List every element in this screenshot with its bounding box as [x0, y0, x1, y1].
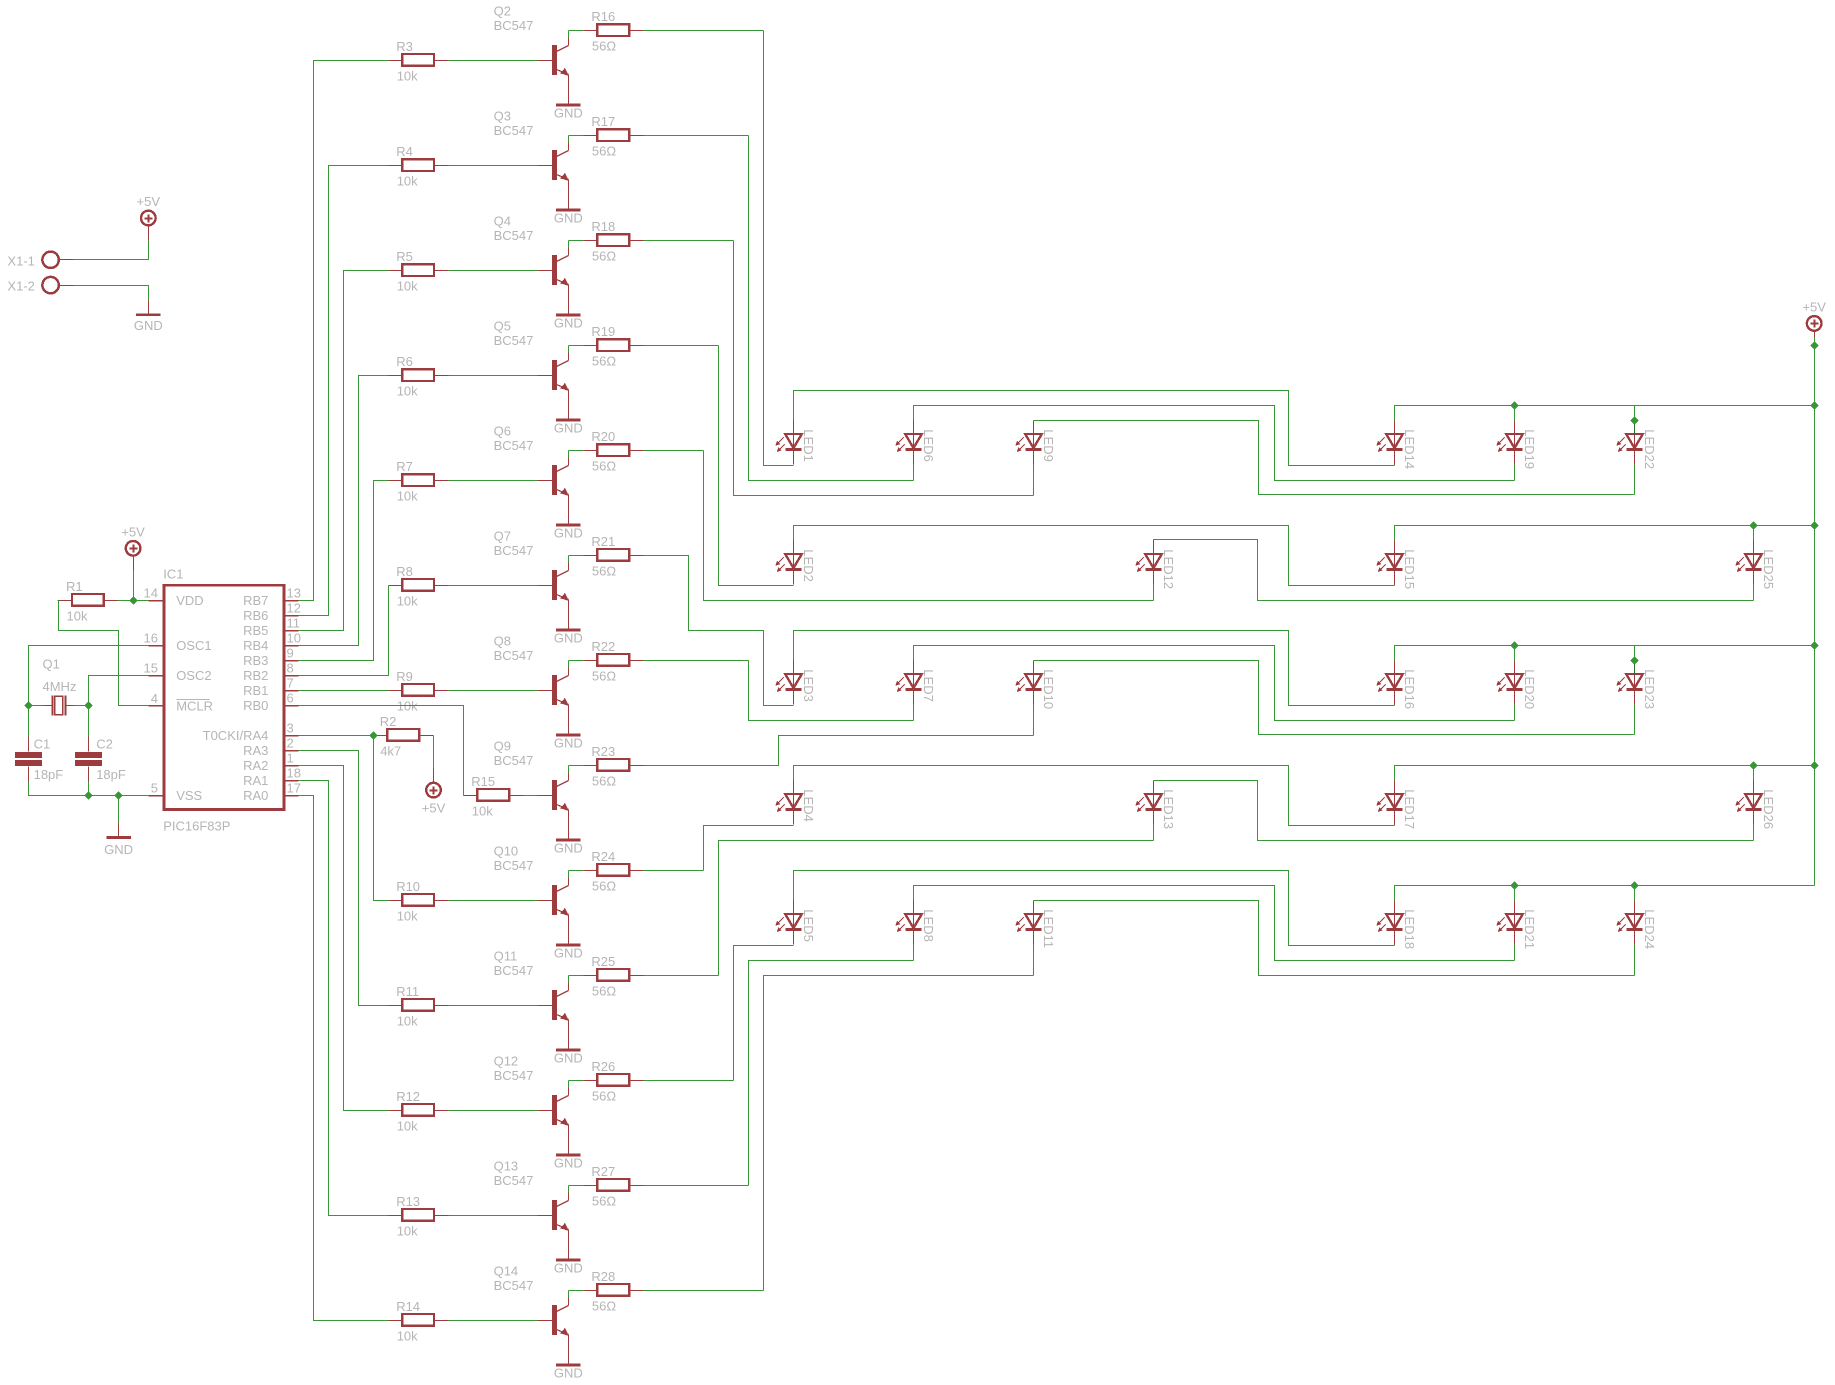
LED23 anode overlap	[1634, 661, 1636, 675]
transistor Q9 BC547	[494, 739, 569, 841]
resistor R27 56Ω	[584, 1164, 644, 1209]
wire R21 to LED3	[644, 556, 779, 706]
wire LED22 cathode stub	[1634, 465, 1636, 495]
wire LED13 anode bus	[1154, 781, 1754, 841]
svg-text:18: 18	[287, 766, 301, 781]
wire R18 lead join	[569, 240, 584, 242]
svg-text:10k: 10k	[67, 609, 88, 624]
junction C2 gnd node	[84, 791, 92, 799]
svg-text:BC547: BC547	[494, 123, 534, 138]
svg-text:BC547: BC547	[494, 543, 534, 558]
svg-text:GND: GND	[554, 736, 583, 751]
svg-text:Q7: Q7	[494, 529, 511, 544]
resistor R24 56Ω	[584, 849, 644, 894]
LED LED22	[1616, 421, 1657, 470]
LED LED5	[775, 901, 816, 945]
IC1 pin 17 RA0	[243, 781, 301, 803]
svg-text:LED1: LED1	[801, 429, 816, 462]
svg-text:56Ω: 56Ω	[592, 354, 616, 369]
junction LED22 anode	[1630, 416, 1638, 424]
svg-text:56Ω: 56Ω	[592, 1194, 616, 1209]
svg-text:GND: GND	[554, 106, 583, 121]
wire LED16 cathode stub	[1394, 705, 1396, 706]
wire LED9 anode bus	[1034, 421, 1635, 495]
wire R16 to LED channel	[644, 30, 764, 32]
Q4 collector pin	[568, 248, 570, 256]
resistor R12 10k	[389, 1089, 449, 1134]
wire R18 to LED channel	[644, 240, 734, 242]
svg-text:R9: R9	[396, 669, 413, 684]
IC1 pin 15 OSC2	[144, 661, 212, 683]
IC1 pin 8 RB2	[243, 661, 298, 683]
wire R24 lead join	[569, 870, 584, 872]
svg-text:LED5: LED5	[801, 909, 816, 942]
resistor R26 56Ω	[584, 1059, 644, 1104]
ground below IC1	[104, 836, 133, 857]
svg-text:LED22: LED22	[1642, 429, 1657, 469]
svg-text:2: 2	[287, 736, 294, 751]
LED LED19	[1496, 421, 1537, 470]
svg-text:GND: GND	[554, 946, 583, 961]
wire LED23 anode stub	[1634, 646, 1636, 661]
svg-text:LED7: LED7	[921, 669, 936, 702]
junction VDD node	[129, 596, 137, 604]
wire R1 to VDD pin	[118, 600, 149, 602]
wire LED13 cathode stub	[1153, 825, 1155, 841]
junction row C rail	[1810, 641, 1818, 649]
svg-text:X1-1: X1-1	[7, 253, 34, 268]
svg-text:15: 15	[144, 661, 158, 676]
IC1 pin 5 VSS	[149, 781, 203, 803]
capacitor C1 18pF	[15, 737, 63, 783]
junction row B bus at LED25	[1749, 521, 1757, 529]
Q14 collector pin	[568, 1298, 570, 1306]
wire pin to R10	[299, 736, 389, 901]
wire X1-2 to GND	[74, 286, 149, 301]
svg-text:R2: R2	[380, 714, 397, 729]
wire +5V rail	[1814, 338, 1816, 886]
wire Q6 collector to R20	[568, 451, 570, 458]
svg-text:R18: R18	[591, 219, 615, 234]
svg-text:R13: R13	[396, 1194, 420, 1209]
svg-text:LED9: LED9	[1041, 429, 1056, 462]
transistor Q3 BC547	[494, 109, 569, 211]
junction row C bus at LED20	[1510, 641, 1518, 649]
svg-text:LED19: LED19	[1522, 429, 1537, 469]
connector pin X1-2	[7, 277, 73, 294]
resistor R4 10k	[389, 144, 449, 189]
wire R10 to Q10 base	[449, 900, 538, 902]
wire X1-1 to +5V	[74, 241, 149, 260]
wire R23 to LED10	[644, 736, 794, 766]
Q2 collector pin	[568, 38, 570, 46]
svg-text:LED20: LED20	[1522, 669, 1537, 709]
wire R26 to LED channel	[644, 1080, 734, 1082]
wire R11 to Q11 base	[449, 1005, 538, 1007]
wire Q5 collector to R19	[568, 346, 570, 353]
svg-text:10: 10	[287, 631, 301, 646]
Q6 collector pin	[568, 458, 570, 466]
wire LED14 cathode stub	[1394, 465, 1396, 466]
wire pin to R9	[299, 690, 389, 692]
svg-text:Q6: Q6	[494, 424, 511, 439]
ground below Q13	[554, 1259, 583, 1276]
transistor Q14 BC547	[494, 1264, 569, 1366]
svg-text:R17: R17	[591, 114, 615, 129]
wire pin to R3	[299, 61, 389, 601]
IC1 pin 10 RB4	[243, 631, 301, 653]
wire R25 channel to LED13	[719, 841, 1154, 976]
wire R8 to Q7 base	[449, 585, 538, 587]
junction row D rail	[1810, 761, 1818, 769]
LED LED18	[1376, 901, 1417, 950]
wire R19 to LED channel	[644, 345, 719, 347]
connector pin X1-1	[7, 252, 73, 269]
svg-text:56Ω: 56Ω	[592, 564, 616, 579]
wire LED7 anode bus	[914, 646, 1515, 721]
wire LED10 anode bus	[1034, 661, 1635, 735]
svg-text:R5: R5	[396, 249, 413, 264]
ground pin below IC1	[118, 796, 120, 838]
wire R22 channel to LED7	[749, 661, 914, 721]
svg-text:17: 17	[287, 781, 301, 796]
wire Q10 collector to R24	[568, 871, 570, 878]
svg-text:4MHz: 4MHz	[43, 679, 77, 694]
svg-text:RB2: RB2	[243, 668, 268, 683]
resistor R1 10k	[58, 579, 118, 624]
junction crystal right node	[84, 701, 92, 709]
wire R26 channel to LED5	[734, 946, 794, 1081]
junction rail top node	[1810, 341, 1818, 349]
wire VDD node to pin14	[134, 600, 149, 602]
transistor Q4 BC547	[494, 214, 569, 316]
wire R24 to LED channel	[644, 870, 704, 872]
svg-text:PIC16F83P: PIC16F83P	[163, 819, 230, 834]
wire LED9 cathode stub	[1033, 465, 1035, 496]
resistor R3 10k	[389, 39, 449, 84]
wire R15 to Q9 base	[524, 795, 538, 797]
wire crystal left to C1	[28, 706, 30, 737]
wire Q9 collector to R23	[568, 766, 570, 773]
ground below Q11	[554, 1049, 583, 1066]
ground below Q12	[554, 1154, 583, 1171]
wire Q12 collector to R26	[568, 1081, 570, 1088]
wire R20 channel to LED12	[704, 451, 1154, 601]
transistor Q12 BC547	[494, 1054, 569, 1156]
wire LED4 anode bus	[794, 766, 1395, 826]
svg-text:+5V: +5V	[121, 524, 145, 539]
crystal Q1 4MHz	[43, 657, 77, 716]
svg-text:VSS: VSS	[176, 788, 202, 803]
svg-text:R23: R23	[591, 744, 615, 759]
svg-text:R10: R10	[396, 879, 420, 894]
resistor R25 56Ω	[584, 954, 644, 999]
LED LED8	[895, 901, 936, 945]
resistor R9 10k	[389, 669, 449, 714]
wire LED6 cathode stub	[913, 465, 915, 481]
Q12 collector pin	[568, 1088, 570, 1096]
svg-text:MCLR: MCLR	[176, 698, 213, 713]
svg-text:14: 14	[144, 586, 158, 601]
wire LED22 anode stub	[1634, 406, 1636, 421]
svg-text:10k: 10k	[397, 384, 418, 399]
wire R19 channel to LED2	[719, 346, 794, 586]
svg-text:LED6: LED6	[921, 429, 936, 462]
wire LED12 anode bus	[1154, 540, 1754, 601]
wire R23 lead join	[569, 765, 584, 767]
wire LED17 cathode stub	[1394, 825, 1396, 826]
wire pin to R4	[299, 166, 389, 616]
wire R19 lead join	[569, 345, 584, 347]
resistor R16 56Ω	[584, 9, 644, 54]
svg-text:LED23: LED23	[1642, 669, 1657, 709]
Q8 collector pin	[568, 668, 570, 676]
wire LED1 anode bus	[794, 391, 1395, 466]
IC1 pin 12 RB6	[243, 601, 301, 623]
resistor R15 10k	[464, 774, 524, 819]
svg-text:16: 16	[144, 631, 158, 646]
wire R21 lead join	[569, 555, 584, 557]
wire C1 to VSS rail	[29, 782, 149, 796]
wire R24 channel to LED4	[704, 826, 794, 871]
svg-text:GND: GND	[554, 1366, 583, 1381]
svg-text:R20: R20	[591, 429, 615, 444]
svg-text:LED4: LED4	[801, 789, 816, 822]
svg-text:LED16: LED16	[1402, 669, 1417, 709]
svg-text:C1: C1	[34, 737, 51, 752]
wire Q7 collector to R21	[568, 556, 570, 563]
svg-text:1: 1	[287, 751, 294, 766]
svg-text:R4: R4	[396, 144, 413, 159]
wire pin to R6	[299, 376, 389, 646]
capacitor C2 18pF	[75, 737, 126, 783]
svg-text:LED12: LED12	[1161, 549, 1176, 589]
wire R25 to LED channel	[644, 975, 719, 977]
resistor R22 56Ω	[584, 639, 644, 684]
svg-text:RA3: RA3	[243, 743, 268, 758]
svg-text:4: 4	[151, 691, 158, 706]
ground below Q2	[554, 104, 583, 121]
wire LED19 cathode stub	[1514, 465, 1516, 481]
LED LED7	[895, 661, 936, 705]
Q13 collector pin	[568, 1193, 570, 1201]
wire LED25 anode stub	[1753, 526, 1755, 541]
junction gnd branch node	[114, 791, 122, 799]
svg-text:R3: R3	[396, 39, 413, 54]
wire R2 to +5V	[433, 736, 435, 769]
wire LED26 cathode stub	[1753, 825, 1755, 841]
svg-text:10k: 10k	[397, 1224, 418, 1239]
svg-text:R11: R11	[396, 984, 419, 999]
junction LED23 anode	[1630, 656, 1638, 664]
ground below Q10	[554, 944, 583, 961]
svg-text:GND: GND	[554, 421, 583, 436]
LED LED4	[775, 781, 816, 825]
svg-text:Q11: Q11	[494, 949, 518, 964]
svg-text:RB0: RB0	[243, 698, 268, 713]
IC1 pin 9 RB3	[243, 646, 298, 668]
svg-text:LED17: LED17	[1402, 789, 1417, 829]
IC IC1 PIC16F83P body	[163, 567, 284, 834]
Q11 collector pin	[568, 983, 570, 991]
wire R27 channel to LED8	[749, 961, 914, 1186]
wire pin to R13	[299, 781, 389, 1216]
svg-text:10k: 10k	[472, 804, 493, 819]
resistor R11 10k	[389, 984, 449, 1029]
resistor R17 56Ω	[584, 114, 644, 159]
wire LED24 anode stub	[1634, 886, 1636, 901]
wire LED10 bottom	[794, 735, 1034, 737]
wire R1 to MCLR	[58, 601, 149, 706]
ground below Q5	[554, 419, 583, 436]
svg-text:Q8: Q8	[494, 634, 511, 649]
wire Q11 collector to R25	[568, 976, 570, 983]
transistor Q13 BC547	[494, 1159, 569, 1261]
wire LED18 cathode stub	[1394, 945, 1396, 946]
svg-text:RB5: RB5	[243, 623, 268, 638]
resistor R10 10k	[389, 879, 449, 924]
svg-text:12: 12	[287, 601, 301, 616]
IC1 pin 1 RA2	[243, 751, 298, 773]
wire R28 to LED channel	[644, 1290, 764, 1292]
IC1 pin 2 RA3	[243, 736, 298, 758]
LED LED12	[1135, 541, 1176, 590]
svg-text:C2: C2	[96, 737, 113, 752]
wire +5V bus row B	[1395, 526, 1815, 541]
wire R16 channel to LED1	[764, 31, 794, 466]
svg-text:BC547: BC547	[494, 858, 534, 873]
svg-text:GND: GND	[554, 1051, 583, 1066]
wire LED11 cathode stub	[1033, 945, 1035, 976]
wire LED3 anode bus	[794, 631, 1395, 706]
junction crystal left node	[24, 701, 32, 709]
svg-text:GND: GND	[554, 1261, 583, 1276]
ground below Q3	[554, 209, 583, 226]
wire R28 channel to LED11	[764, 976, 1034, 1291]
ground below Q7	[554, 629, 583, 646]
wire R27 to LED channel	[644, 1185, 749, 1187]
transistor Q5 BC547	[494, 319, 569, 421]
resistor R13 10k	[389, 1194, 449, 1239]
LED LED14	[1376, 421, 1417, 470]
LED LED6	[895, 421, 936, 465]
svg-text:BC547: BC547	[494, 18, 534, 33]
wire LED25 cathode stub	[1753, 585, 1755, 601]
svg-text:10k: 10k	[397, 1014, 418, 1029]
svg-text:+5V: +5V	[422, 801, 446, 816]
svg-text:R24: R24	[591, 849, 615, 864]
svg-text:Q5: Q5	[494, 319, 511, 334]
svg-text:11: 11	[287, 616, 301, 631]
svg-text:X1-2: X1-2	[7, 279, 34, 294]
Q7 collector pin	[568, 563, 570, 571]
resistor R14 10k	[389, 1299, 449, 1344]
resistor R23 56Ω	[584, 744, 644, 789]
transistor Q8 BC547	[494, 634, 569, 736]
svg-text:3: 3	[287, 721, 294, 736]
wire LED7 cathode stub	[913, 705, 915, 721]
transistor Q2 BC547	[494, 4, 569, 106]
svg-text:4k7: 4k7	[380, 744, 401, 759]
svg-text:R28: R28	[591, 1269, 615, 1284]
IC1 pin 18 RA1	[243, 766, 301, 788]
wire LED10 cathode stub	[1033, 705, 1035, 736]
svg-text:R6: R6	[396, 354, 413, 369]
transistor Q6 BC547	[494, 424, 569, 526]
Q3 collector pin	[568, 143, 570, 151]
svg-text:+5V: +5V	[1802, 299, 1826, 314]
wire R17 to LED channel	[644, 135, 749, 137]
wire Q4 collector to R18	[568, 241, 570, 248]
LED LED13	[1135, 781, 1176, 830]
svg-text:10k: 10k	[397, 174, 418, 189]
svg-text:BC547: BC547	[494, 438, 534, 453]
svg-text:Q13: Q13	[494, 1159, 519, 1174]
wire LED26 anode stub	[1753, 766, 1755, 781]
wire LED12 cathode stub	[1153, 585, 1155, 601]
IC1 pin 11 RB5	[243, 616, 300, 638]
wire pin3 to RA4 node	[299, 735, 374, 737]
transistor Q7 BC547	[494, 529, 569, 631]
svg-text:GND: GND	[554, 526, 583, 541]
IC1 pin 6 RB0	[243, 691, 298, 713]
svg-text:RB6: RB6	[243, 608, 268, 623]
wire R17 lead join	[569, 135, 584, 137]
svg-text:Q1: Q1	[43, 657, 60, 672]
svg-text:RB4: RB4	[243, 638, 268, 653]
wire R16 lead join	[569, 30, 584, 32]
svg-text:LED10: LED10	[1041, 669, 1056, 709]
wire OSC1 to crystal	[29, 646, 149, 706]
junction row E bus at LED24	[1630, 881, 1638, 889]
junction row B rail	[1810, 521, 1818, 529]
svg-text:9: 9	[287, 646, 294, 661]
wire LED21 anode stub	[1514, 886, 1516, 901]
svg-text:R21: R21	[591, 534, 615, 549]
svg-text:56Ω: 56Ω	[592, 1089, 616, 1104]
wire +5V to VDD node	[133, 571, 135, 601]
+5V supply at X1-1	[137, 194, 161, 241]
wire LED6 anode bus	[914, 406, 1515, 481]
wire R3 to Q2 base	[449, 60, 538, 62]
LED LED20	[1496, 661, 1537, 710]
svg-text:RA1: RA1	[243, 773, 268, 788]
ground below Q4	[554, 314, 583, 331]
wire pin to R7	[299, 481, 389, 661]
wire +5V bus row C	[1395, 646, 1815, 661]
wire LED15 cathode stub	[1394, 585, 1396, 586]
resistor R2 4k7	[374, 714, 434, 759]
svg-text:56Ω: 56Ω	[592, 249, 616, 264]
wire LED20 cathode stub	[1514, 705, 1516, 721]
wire LED19 anode stub	[1514, 406, 1516, 421]
svg-text:R8: R8	[396, 564, 413, 579]
svg-text:BC547: BC547	[494, 963, 534, 978]
svg-text:Q14: Q14	[494, 1264, 519, 1279]
LED LED23	[1616, 661, 1657, 710]
svg-text:Q3: Q3	[494, 109, 511, 124]
ground below X1-2	[134, 313, 163, 333]
wire R6 to Q5 base	[449, 375, 538, 377]
LED LED10	[1015, 661, 1056, 710]
svg-text:56Ω: 56Ω	[592, 459, 616, 474]
wire Q14 collector to R28	[568, 1291, 570, 1298]
svg-text:OSC1: OSC1	[176, 638, 211, 653]
LED LED25	[1735, 541, 1776, 590]
svg-text:R27: R27	[591, 1164, 615, 1179]
svg-text:18pF: 18pF	[96, 767, 126, 782]
wire +5V bus row E	[1395, 886, 1815, 901]
